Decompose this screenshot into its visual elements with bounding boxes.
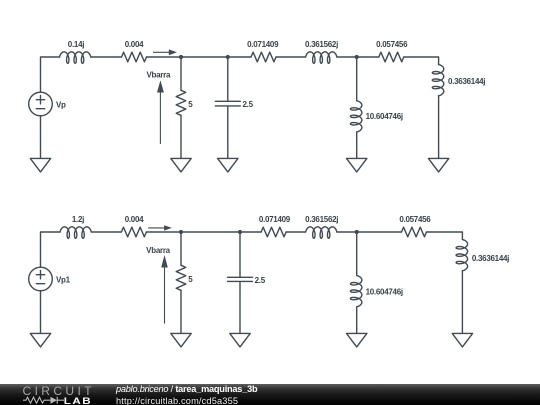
- svg-text:Vp1: Vp1: [56, 276, 71, 285]
- svg-text:Vbarra: Vbarra: [146, 71, 170, 80]
- svg-text:0.071409: 0.071409: [247, 40, 279, 49]
- svg-text:2.5: 2.5: [255, 276, 266, 285]
- svg-text:Vp: Vp: [56, 100, 66, 109]
- svg-text:0.057456: 0.057456: [399, 215, 431, 224]
- svg-text:10.604746j: 10.604746j: [366, 287, 403, 296]
- svg-text:0.3636144j: 0.3636144j: [472, 254, 509, 263]
- svg-text:0.004: 0.004: [125, 40, 144, 49]
- svg-text:0.361562j: 0.361562j: [305, 215, 338, 224]
- svg-text:Vbarra: Vbarra: [146, 246, 170, 255]
- svg-text:2.5: 2.5: [243, 100, 254, 109]
- svg-text:10.604746j: 10.604746j: [366, 112, 403, 121]
- svg-text:0.14j: 0.14j: [68, 40, 84, 49]
- svg-text:5: 5: [188, 275, 193, 284]
- svg-text:0.3636144j: 0.3636144j: [448, 77, 485, 86]
- svg-text:0.004: 0.004: [125, 215, 144, 224]
- svg-text:5: 5: [188, 100, 193, 109]
- svg-text:LAB: LAB: [64, 396, 93, 405]
- svg-text:1.2j: 1.2j: [72, 215, 84, 224]
- svg-text:0.071409: 0.071409: [259, 215, 291, 224]
- svg-text:0.057456: 0.057456: [376, 40, 408, 49]
- svg-text:0.361562j: 0.361562j: [305, 40, 338, 49]
